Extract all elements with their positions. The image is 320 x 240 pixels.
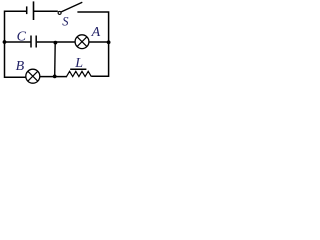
node left-middle [3, 40, 7, 44]
wire lamp A to right bus [89, 41, 109, 43]
wire top-left segment [5, 11, 27, 42]
node bottom-center [53, 75, 57, 79]
wire switch to top-right corner and right bus upper [77, 12, 108, 42]
battery [27, 1, 34, 20]
node middle-center [54, 41, 58, 45]
wire capacitor to node [37, 41, 55, 43]
svg-text:B: B [16, 59, 25, 74]
wire vertical connector [54, 43, 57, 77]
inductor L [67, 56, 92, 76]
wire lamp B to node [40, 76, 55, 78]
node right-middle [107, 40, 111, 44]
svg-text:S: S [62, 15, 69, 29]
wire inductor to right bus and right bus lower [91, 42, 108, 76]
lamp B [16, 59, 40, 83]
svg-text:L: L [74, 56, 83, 71]
svg-text:C: C [17, 30, 27, 45]
wire node to inductor [55, 76, 67, 78]
wire battery to switch [34, 10, 58, 12]
switch S [58, 2, 82, 28]
wire left bus middle-to-bottom [5, 42, 26, 77]
wire middle left [5, 41, 31, 43]
capacitor C [17, 30, 37, 48]
wire node to lamp A [55, 41, 75, 43]
svg-text:A: A [91, 25, 101, 40]
lamp A [75, 25, 101, 49]
